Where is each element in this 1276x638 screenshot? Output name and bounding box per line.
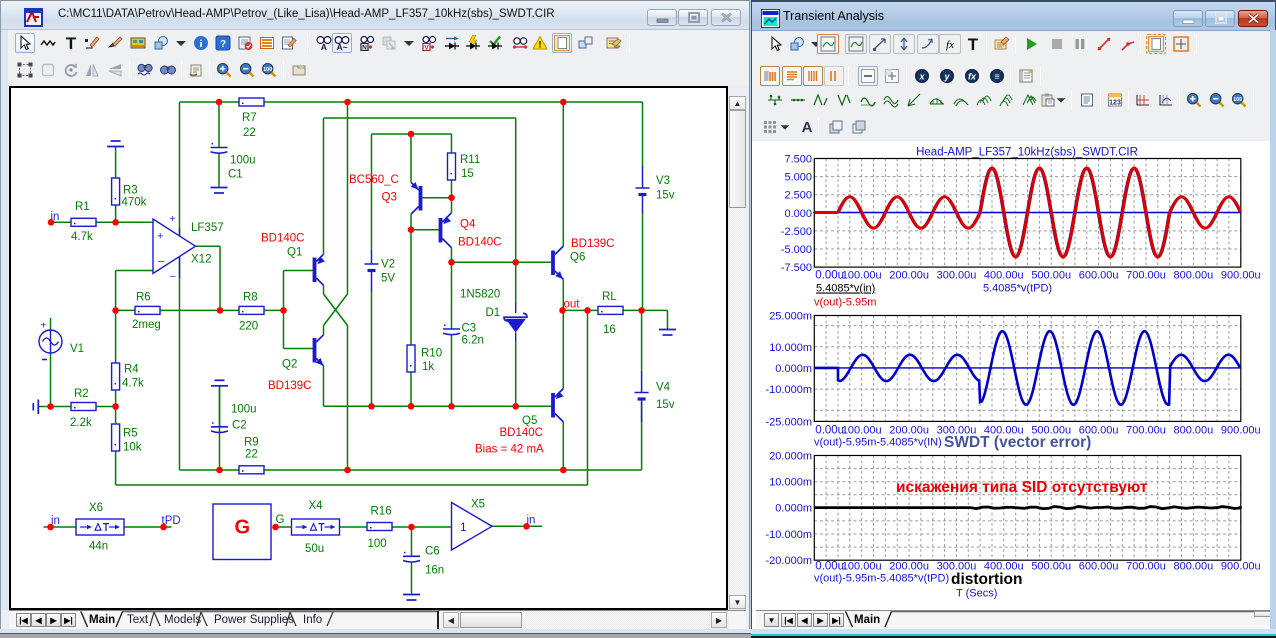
svg-text:22: 22 [245,449,258,461]
svg-text:1: 1 [460,520,467,534]
svg-text:-7.500: -7.500 [781,262,812,274]
svg-text:10.000m: 10.000m [769,477,812,489]
svg-text:10k: 10k [123,442,142,454]
svg-text:BD139C: BD139C [571,238,614,250]
svg-text:6.2n: 6.2n [462,335,484,347]
svg-text:R6: R6 [136,292,151,304]
svg-text:R5: R5 [123,428,138,440]
svg-text:in: in [51,211,60,223]
svg-text:10.000m: 10.000m [769,342,812,354]
svg-text:R16: R16 [371,506,392,518]
svg-text:R1: R1 [75,201,90,213]
svg-text:-5.000: -5.000 [781,244,812,256]
svg-text:-10.000m: -10.000m [766,529,812,541]
svg-text:200.00u: 200.00u [889,561,929,573]
svg-text:R9: R9 [244,437,259,449]
svg-text:5.4085*v(in): 5.4085*v(in) [816,283,875,295]
svg-text:7.500: 7.500 [784,154,812,166]
svg-text:0.000m: 0.000m [775,363,812,375]
svg-text:Q5: Q5 [522,415,537,427]
svg-text:5V: 5V [381,273,395,285]
svg-text:200.00u: 200.00u [889,425,929,437]
svg-text:100u: 100u [230,155,256,167]
svg-text:220: 220 [239,321,258,333]
svg-text:2.500: 2.500 [784,190,812,202]
svg-text:v(out)-5.95m-5.4085*v(tPD): v(out)-5.95m-5.4085*v(tPD) [814,573,949,585]
svg-text:500.00u: 500.00u [1031,561,1071,573]
svg-text:Q2: Q2 [282,359,297,371]
svg-text:D1: D1 [486,307,501,319]
svg-text:123: 123 [1109,100,1121,107]
svg-text:X5: X5 [471,499,485,511]
svg-text:A: A [321,42,327,51]
svg-text:600.00u: 600.00u [1079,561,1119,573]
svg-text:N: N [362,45,367,52]
svg-text:LF357: LF357 [191,222,224,234]
svg-text:4.7k: 4.7k [71,231,93,243]
svg-text:!: ! [539,40,542,50]
svg-text:RL: RL [602,291,617,303]
svg-text:20.000m: 20.000m [769,451,812,463]
svg-text:16: 16 [603,324,616,336]
svg-text:100: 100 [263,67,272,73]
svg-text:0.000: 0.000 [784,208,812,220]
svg-text:600.00u: 600.00u [1079,270,1119,282]
svg-text:R2: R2 [74,388,89,400]
svg-text:15: 15 [461,168,474,180]
svg-text:50u: 50u [305,543,324,555]
svg-text:500.00u: 500.00u [1031,270,1071,282]
svg-text:C6: C6 [425,546,440,558]
svg-text:Q6: Q6 [570,252,585,264]
svg-text:1N5820: 1N5820 [460,289,500,301]
svg-text:+: + [170,214,176,225]
svg-text:22: 22 [243,127,256,139]
svg-text:Q3: Q3 [382,192,397,204]
svg-text:X6: X6 [89,502,103,514]
svg-text:v(out)-5.95m: v(out)-5.95m [814,297,876,309]
svg-text:SWDT (vector error): SWDT (vector error) [944,434,1091,451]
svg-text:y: y [943,72,950,82]
svg-text:out: out [564,299,581,311]
svg-text:in: in [51,515,60,527]
svg-text:5.4085*v(tPD): 5.4085*v(tPD) [983,283,1052,295]
svg-text:-2.500: -2.500 [781,226,812,238]
svg-text:0.000m: 0.000m [775,503,812,515]
svg-text:16n: 16n [425,565,444,577]
svg-text:25.000m: 25.000m [769,311,812,323]
svg-text:0.00u: 0.00u [815,270,844,282]
svg-text:v(out)-5.95m-5.4085*v(IN): v(out)-5.95m-5.4085*v(IN) [814,437,942,449]
svg-text:V3: V3 [656,175,670,187]
svg-text:100.00u: 100.00u [842,561,882,573]
svg-text:BD140C: BD140C [500,427,543,439]
svg-text:700.00u: 700.00u [1126,270,1166,282]
svg-text:x: x [918,72,925,82]
svg-text:G: G [235,517,251,539]
svg-text:–: – [170,271,176,282]
svg-text:0.00u: 0.00u [815,425,844,437]
svg-text:900.00u: 900.00u [1221,270,1261,282]
svg-text:400.00u: 400.00u [984,270,1024,282]
svg-text:Bias = 42 mA: Bias = 42 mA [475,444,544,456]
svg-text:distortion: distortion [951,571,1022,588]
svg-text:15v: 15v [656,190,675,202]
svg-text:V: V [424,45,429,52]
svg-text:BD140C: BD140C [458,237,501,249]
svg-text:R10: R10 [421,348,442,360]
svg-text:100: 100 [1233,97,1242,103]
svg-text:A~: A~ [336,42,347,51]
svg-text:-25.000m: -25.000m [766,416,812,428]
svg-text:G: G [276,514,285,526]
svg-text:fx: fx [968,72,977,82]
svg-text:44n: 44n [89,541,108,553]
svg-text:100.00u: 100.00u [842,425,882,437]
svg-text:V2: V2 [381,259,395,271]
svg-text:R11: R11 [460,154,480,166]
svg-text:in: in [527,515,536,527]
svg-text:800.00u: 800.00u [1174,425,1214,437]
svg-text:fx: fx [946,39,954,51]
svg-text:R4: R4 [124,364,139,376]
svg-text:R8: R8 [243,292,258,304]
svg-text:4.7k: 4.7k [122,378,144,390]
svg-text:BC560_C: BC560_C [349,174,399,186]
svg-text:900.00u: 900.00u [1221,561,1261,573]
svg-text:T (Secs): T (Secs) [956,588,997,600]
svg-text:1k: 1k [422,361,434,373]
svg-text:C3: C3 [462,323,477,335]
svg-text:искажения типа SID отсутствуют: искажения типа SID отсутствуют [896,479,1148,496]
svg-text:800.00u: 800.00u [1174,561,1214,573]
svg-text:C2: C2 [232,420,247,432]
svg-text:100: 100 [368,538,387,550]
svg-text:-20.000m: -20.000m [766,555,812,567]
svg-text:Q4: Q4 [460,219,476,231]
svg-text:-10.000m: -10.000m [766,384,812,396]
svg-text:Q1: Q1 [287,247,302,259]
svg-text:100u: 100u [231,404,257,416]
svg-text:X4: X4 [309,500,324,512]
svg-text:X12: X12 [191,254,211,266]
svg-text:V4: V4 [656,382,671,394]
svg-text:900.00u: 900.00u [1221,425,1261,437]
svg-text:?: ? [220,39,226,50]
svg-text:+: + [41,321,47,332]
svg-text:–: – [158,256,165,268]
svg-text:800.00u: 800.00u [1174,270,1214,282]
svg-text:470k: 470k [122,197,147,209]
svg-text:15v: 15v [656,399,675,411]
svg-text:i: i [199,38,202,50]
svg-text:Head-AMP_LF357_10kHz(sbs)_SWDT: Head-AMP_LF357_10kHz(sbs)_SWDT.CIR [916,147,1138,159]
svg-text:V1: V1 [70,343,84,355]
svg-text:0.00u: 0.00u [815,561,844,573]
svg-text:C1: C1 [228,169,243,181]
svg-text:200.00u: 200.00u [889,270,929,282]
svg-text:tPD: tPD [162,515,181,527]
svg-text:+: + [157,231,163,243]
svg-text:5.000: 5.000 [784,172,812,184]
svg-text:BD139C: BD139C [268,380,311,392]
svg-text:700.00u: 700.00u [1126,561,1166,573]
svg-text:2meg: 2meg [132,319,161,331]
svg-text:700.00u: 700.00u [1126,425,1166,437]
svg-text:≡: ≡ [994,72,999,82]
svg-text:2.2k: 2.2k [70,417,92,429]
svg-text:R7: R7 [242,112,257,124]
svg-text:300.00u: 300.00u [937,270,977,282]
svg-text:BD140C: BD140C [261,233,304,245]
svg-text:100.00u: 100.00u [842,270,882,282]
svg-text:R3: R3 [123,185,138,197]
